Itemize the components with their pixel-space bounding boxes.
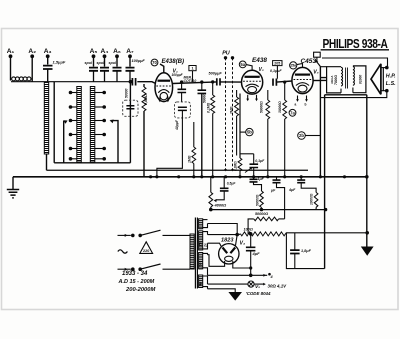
wire mains 1b [163,234,191,236]
capacitor antenna 1 [89,68,98,71]
node bus 212.7 [211,175,214,178]
coil L3 [90,87,95,163]
tube V3 [292,67,313,93]
svg-text:200-2000M: 200-2000M [125,287,155,293]
transformer core [195,218,197,289]
label V4 [240,241,246,247]
resistor R1 0,8Mohm [142,84,146,177]
capacitor 4uF [246,232,256,251]
node speaker terminal 1 [381,66,389,70]
svg-text:E438: E438 [252,57,267,64]
wire cap stem down 2 [104,71,106,82]
node bus 320.4 [319,175,322,178]
wire output top [320,66,326,68]
capacitor tap [214,177,229,203]
label sec 350 rotated [198,262,202,268]
wire HT anode1 [208,233,240,246]
svg-text:7a: 7a [290,110,295,115]
capacitor antenna 4 [126,68,135,71]
wire V1 anode line [173,82,217,84]
resistor R3 0,1Mohm [211,82,215,177]
label R7 [278,101,282,113]
wire mains 2b [163,268,191,270]
transformer secondary S3 [199,253,208,276]
svg-text:A₄: A₄ [101,48,109,55]
resistor RH2 100ohm [239,232,286,236]
label R2 [187,155,191,163]
terminal A1 [7,48,15,58]
wire terminal stem 2 [104,56,106,66]
node bus 301.2 [300,175,303,178]
label 100uuF [132,59,146,63]
wire output bottom rail [325,94,367,96]
capacitor volume [250,154,259,177]
tube label circled 7a [289,109,296,116]
svg-text:V₅: V₅ [255,284,260,290]
svg-text:70: 70 [152,60,157,65]
wire cap to V2 grid [220,81,242,83]
pin V2 heater 1 [246,95,249,101]
transformer secondary S1 [199,219,208,229]
svg-text:b: b [305,103,307,107]
label E438(B) [162,58,185,65]
svg-text:V₃: V₃ [313,70,318,76]
node speaker terminal 2 [381,89,389,93]
svg-text:4μF: 4μF [288,188,296,192]
capacitor C osc [178,82,187,92]
label spul 2 [97,61,105,65]
wire box1 stem [192,71,194,82]
title PHILIPS 938-A [321,37,389,51]
wire cap stem down 3 [116,71,118,82]
svg-text:0,1μμF: 0,1μμF [270,69,282,73]
capacitor C if1 [198,82,207,93]
wire ground stem [12,177,14,190]
terminal A3 [44,48,52,58]
wire PU dashed 1 [224,58,227,172]
switch wiper left [63,120,67,163]
svg-text:2MΩ: 2MΩ [230,106,234,115]
label capC 100uuF [172,73,184,77]
wire B+ to right [285,231,369,235]
node grid junction [129,80,133,84]
svg-text:30000Ω: 30000Ω [278,101,282,113]
label 4800 [214,202,227,207]
loudspeaker [371,64,383,95]
capacitor 1,8uF [290,233,300,269]
node B+ raw [249,232,253,236]
capacitor series 500uuF [209,72,223,86]
terminal A&#8324; node [101,48,109,58]
chassis ground right [361,247,374,256]
wire mid rail [211,209,326,211]
wire NP riser [317,57,321,66]
trimmer dashed box 2 [175,93,191,118]
wire 2b to right [305,135,320,137]
capacitor tone [320,76,327,82]
coil input loops [12,77,31,81]
wire coupling stem [276,66,278,79]
switch blade 2 [140,264,160,269]
wire heater 2 [208,289,236,292]
resistor R4 2Mohm [235,90,239,156]
wire filament left [208,255,225,267]
wire antenna bus [11,81,131,83]
svg-text:COT010: COT010 [184,79,197,83]
wire rectifier output [233,261,251,275]
svg-text:350: 350 [198,262,202,268]
svg-text:30Ω 4,1V: 30Ω 4,1V [268,284,288,289]
tube label circled 2b [298,132,306,140]
switch contacts L2 taps [69,91,77,161]
wire RH1 right elbow [279,218,285,220]
wire A3 cap to bus [47,69,49,82]
node anode j1 [180,80,183,83]
svg-text:’CODE 8044: ’CODE 8044 [246,291,271,296]
tube V1 [155,73,173,102]
capacitor antenna 3 [113,68,122,71]
label 0,1uuF [270,69,282,73]
pin V3 heater 2 [295,96,308,107]
node anode j2 [200,80,203,83]
wire terminal stem 1 [93,56,95,66]
label 100ohm [244,227,253,231]
wire right v1 [319,67,321,177]
wire heater 1 [208,283,248,285]
svg-text:7000Ω: 7000Ω [334,75,338,85]
svg-text:A₂: A₂ [28,48,36,55]
node bus right [365,175,369,179]
svg-text:a: a [295,103,297,107]
label PU [222,51,230,57]
label sec 4V rotated [198,281,202,287]
wire V2 cathode down [240,94,254,159]
tube label circled 70 [151,59,158,66]
label RH1 [255,212,268,216]
wire to V3 grid [276,81,292,82]
node bus 344.5 [343,175,346,178]
capacitor 1,5uuF [43,60,66,70]
node bus 178.7 [177,175,180,178]
svg-text:350: 350 [198,241,202,247]
svg-text:50000Ω: 50000Ω [255,194,259,206]
rectifier V4 [219,244,239,264]
capacitor G [273,177,285,219]
voltage triangle [140,242,153,254]
output transformer primary [327,67,343,93]
svg-text:205: 205 [274,62,280,66]
wire cap stem down 4 [129,71,131,82]
svg-text:PHILIPS 938-A: PHILIPS 938-A [323,37,388,51]
svg-text:4μF: 4μF [252,251,261,256]
svg-text:V₄: V₄ [240,241,246,247]
node bus 253.7 [252,175,255,178]
label C453 [301,58,319,65]
svg-text:500μμF: 500μμF [209,72,223,76]
wire if1 down [201,93,203,176]
wire speaker top feed [322,58,388,66]
switch wiper right [110,120,118,163]
node j3 [211,80,214,83]
svg-text:1,5μμF: 1,5μμF [53,60,66,65]
svg-text:L.S.: L.S. [386,81,396,87]
label 1933-34 [122,271,148,277]
box terminal 1 [189,66,196,71]
wire right chassis drop [366,95,368,247]
wire mains 2 [118,267,135,271]
node bus 267.8 [266,175,269,178]
pin V1 heater 1 [159,97,162,103]
svg-text:H.P.: H.P. [386,74,396,80]
node bus 150.6 [149,175,152,178]
wire terminal stem 3 [116,56,118,66]
svg-text:5b: 5b [247,130,252,135]
wire V2 top [246,65,252,71]
label R1 [144,94,148,105]
label V2 [259,67,264,73]
label if1 rotated [202,94,206,103]
transformer primary [190,234,194,269]
svg-text:4V: 4V [198,281,202,287]
label sec 2x350 rotated [198,241,207,248]
box terminal 205 [273,61,282,66]
chassis ground center [228,292,242,301]
svg-text:10000Ω: 10000Ω [310,193,314,205]
label R4 [230,106,234,115]
wire ground bus lamp [208,273,274,279]
wire coil box bottom [54,162,130,164]
svg-text:0,1μF: 0,1μF [255,159,265,163]
pin V1 heater 2 [167,97,170,103]
node mid rail right [324,208,327,211]
tube V2 [242,70,263,94]
node bus 201.8 [200,175,203,178]
svg-text:100Ω: 100Ω [244,227,253,231]
label blokkond rotated [124,88,128,98]
svg-text:25a: 25a [290,64,297,68]
label capH [288,188,296,192]
svg-text:30mA: 30mA [330,75,334,84]
node bus 225.6 [224,175,227,178]
svg-text:μF: μF [270,189,276,193]
capacitor antenna 2 [100,68,109,71]
label CODE 8044 [246,291,271,296]
label MER COT010 [184,76,197,84]
label R8 [234,161,238,171]
switch blade 1 [140,230,160,235]
wire A2 stem [31,56,33,81]
terminal A&#8327; node [126,48,134,58]
op label V1 [173,69,178,75]
label secondary rotated [359,75,363,84]
svg-text:1933 - 34: 1933 - 34 [122,271,148,277]
label E438 [252,57,267,64]
svg-text:1μF: 1μF [258,177,265,181]
wire V3 top [297,64,303,68]
svg-text:50000Ω: 50000Ω [255,212,268,216]
label LW range [125,287,155,293]
wire trimmer2 down [155,118,182,178]
label capF [258,177,265,181]
wire A3 stem [47,56,49,64]
transformer secondary S4 heater [199,275,208,289]
svg-text:A.D 15 - 200M: A.D 15 - 200M [118,279,155,285]
svg-text:A₆: A₆ [113,48,121,55]
wire L1 down [46,154,48,170]
node bus 284.7 [283,175,286,178]
label spul 1 [85,61,93,65]
wire V1 top cap [160,64,164,73]
terminal A2 [28,48,36,58]
tube label circled 25a [290,62,298,69]
wire cap stem down 1 [93,71,95,82]
pin V2 heater 2 [255,95,258,101]
label 1823 [221,238,234,244]
label primary rotated [330,75,338,85]
svg-text:1: 1 [191,67,193,71]
capacitor coupling [273,79,276,86]
wire terminal stem 4 [129,56,131,66]
label R3 [207,102,211,113]
svg-text:A₁: A₁ [7,48,15,55]
wire anode to transformer [313,80,320,82]
wire bus upper [47,169,309,171]
capacitor series 100uuF [132,78,135,86]
svg-text:0,5μF: 0,5μF [227,182,237,186]
svg-text:A₅: A₅ [90,48,98,55]
trimmer dashed box 1 [123,100,138,116]
pot wiper arrow [245,167,253,173]
resistor R6 50000ohm [266,90,270,177]
label R9 [255,194,259,206]
svg-text:0,2MΩ: 0,2MΩ [234,161,238,171]
tube label circled 5b [246,128,253,135]
svg-text:40μμF: 40μμF [175,119,179,131]
resistor RH1 50000 [254,217,279,221]
wire coil box left [53,82,55,163]
label 30ohm [268,284,288,289]
node switch 1 [138,234,142,238]
resistor R9 50000 [260,191,264,211]
svg-text:PU: PU [222,51,230,57]
switch contacts L3 taps [95,91,106,161]
pin V3 heater 1 [296,96,299,102]
svg-text:4800Ω: 4800Ω [214,202,227,207]
box terminal NP [314,52,321,57]
svg-text:E438(B): E438(B) [162,58,185,65]
capacitor F 1uF [250,177,262,191]
svg-text:50000: 50000 [202,94,206,103]
ground symbol left [7,190,19,198]
wire PU dashed 2 [231,58,234,172]
wire HT top tap [208,224,238,235]
tube label circled 5a [239,61,246,68]
label LS [386,81,396,87]
ac symbol [118,250,128,253]
wire A1 stem [10,56,12,80]
label HP [386,74,396,80]
svg-text:0,8MΩ: 0,8MΩ [144,94,148,105]
svg-text:01000: 01000 [359,75,363,84]
wire lamp right [254,283,266,286]
label V3 [313,70,318,76]
resistor R7 30000ohm [283,81,287,177]
svg-text:A₇: A₇ [126,48,134,55]
label trimmer2 rotated [175,119,179,131]
node bus 240 [238,175,241,178]
svg-text:2x: 2x [204,243,208,248]
node PU 1 [224,56,227,59]
svg-text:50000Ω: 50000Ω [259,101,263,113]
label AD range [118,279,155,285]
resistor tap 4800 [209,177,213,212]
label R6 [259,101,263,113]
wire speaker return [320,92,386,97]
output transformer secondary [353,66,366,93]
transformer secondary S2 HT [199,231,208,250]
svg-text:5a: 5a [240,62,245,67]
svg-text:2b: 2b [299,133,304,138]
svg-text:A₃: A₃ [44,48,52,55]
label R10 [310,193,314,205]
wire RH1 left elbow [248,219,254,234]
svg-text:V₂: V₂ [259,67,264,73]
resistor R10 10000 [314,192,318,209]
resistor R8 pot [238,158,242,177]
svg-text:100μμF: 100μμF [132,59,146,63]
node PU 2 [231,56,234,59]
coil L2 [77,87,82,163]
capacitor H 4uF [297,177,316,193]
wire 5b stub [240,131,246,133]
label capG [270,189,276,193]
terminal A&#8325; node [90,48,98,58]
wire bus main [13,176,367,178]
label 0,5uF [227,182,237,186]
svg-text:spul: spul [97,61,105,65]
svg-text:100μμF: 100μμF [172,73,184,77]
label spul 3 [109,61,117,65]
wire field box [286,233,324,269]
pilot lamp V5 [248,281,260,290]
svg-text:1MΩ: 1MΩ [187,155,191,163]
svg-text:spul: spul [109,61,117,65]
wire right v2 [324,95,326,269]
resistor R2 1Mohm [192,122,196,178]
wire mains 1 [118,234,135,238]
label 0,1uF [255,159,265,163]
svg-text:50000: 50000 [124,88,128,98]
svg-text:1823: 1823 [221,238,234,244]
label 4uF [252,251,261,256]
wire HT anode2 [208,243,222,247]
coil L1 [44,83,48,155]
transformer core lines [346,68,348,89]
svg-text:spul: spul [85,61,93,65]
wire to V1 grid [137,82,155,84]
svg-text:220: 220 [143,249,149,253]
svg-text:1,8μF: 1,8μF [301,249,312,253]
label 1,8uF [301,249,312,253]
node switch 2 [138,267,142,271]
wire cap4 down [249,251,252,270]
wire coil box right [129,82,131,163]
terminal A&#8326; node [113,48,121,58]
svg-text:0,1MΩ: 0,1MΩ [207,102,211,113]
